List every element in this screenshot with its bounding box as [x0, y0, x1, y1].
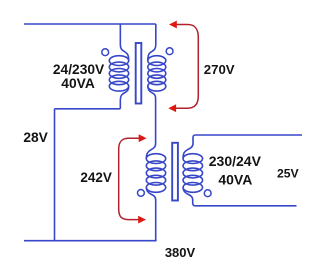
arrowhead 270V top	[169, 21, 177, 29]
svg-text:230/24V: 230/24V	[209, 153, 262, 169]
svg-text:380V: 380V	[165, 245, 196, 260]
arrowhead 270V bottom	[168, 104, 176, 112]
svg-text:242V: 242V	[80, 170, 112, 185]
svg-text:40VA: 40VA	[61, 76, 95, 91]
svg-text:270V: 270V	[204, 62, 235, 77]
polarity dot T2 secondary	[204, 190, 211, 197]
wire T2 secondary top lead to output	[183, 135, 302, 159]
svg-text:40VA: 40VA	[218, 172, 252, 188]
measurement bracket 270V	[175, 25, 198, 109]
arrowhead 242V top	[139, 134, 147, 142]
polarity dot T2 primary	[138, 190, 145, 197]
svg-text:25V: 25V	[277, 167, 300, 181]
transformer T1 core	[136, 43, 142, 104]
svg-text:24/230V: 24/230V	[53, 62, 105, 77]
transformer T1 primary winding	[109, 56, 128, 91]
transformer T2 primary winding	[146, 154, 165, 193]
transformer T2 core	[172, 143, 178, 201]
transformer T1 secondary winding	[148, 56, 166, 91]
measurement bracket 242V	[119, 138, 140, 219]
arrowhead 242V bottom	[138, 216, 146, 224]
wire top input	[24, 23, 156, 25]
wire left rail	[54, 109, 56, 241]
wire T1 bottom to left rail	[55, 108, 121, 110]
wire T2 secondary bottom lead to output	[183, 187, 296, 205]
wire T1 primary bottom lead	[120, 86, 128, 109]
wire T2 primary bottom lead	[146, 187, 155, 240]
transformer T2 secondary winding	[183, 154, 203, 193]
polarity dot T1 primary	[102, 49, 109, 56]
wire T1 secondary bottom to T2 primary top	[146, 86, 155, 158]
polarity dot T1 secondary	[166, 48, 173, 55]
wire T1 secondary top lead	[148, 24, 156, 61]
wire T1 primary top lead	[120, 24, 128, 61]
wire bottom input	[24, 240, 157, 242]
svg-text:28V: 28V	[23, 130, 48, 145]
